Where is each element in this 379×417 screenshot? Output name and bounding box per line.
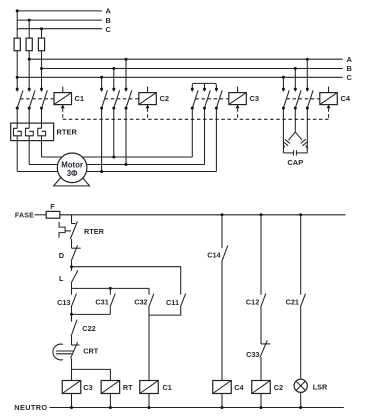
svg-text:C: C	[347, 73, 353, 82]
svg-text:FASE: FASE	[15, 213, 34, 220]
fuse F2	[26, 38, 32, 51]
contact C33 NC	[260, 340, 270, 380]
node bus B tap	[40, 67, 43, 70]
svg-text:B: B	[347, 64, 353, 73]
svg-text:CAP: CAP	[287, 158, 303, 167]
wire line A top	[17, 10, 102, 12]
svg-text:D: D	[59, 251, 64, 260]
node C	[40, 27, 43, 30]
svg-text:C31: C31	[95, 298, 108, 307]
contactor C1 contacts	[16, 88, 54, 110]
wire line B top	[17, 19, 102, 21]
wire phase C drop	[41, 29, 43, 38]
node C2-2 junction	[112, 156, 115, 159]
node B	[28, 19, 31, 22]
node neutro RT	[109, 406, 112, 409]
svg-text:C1: C1	[163, 383, 172, 392]
svg-text:F: F	[50, 202, 55, 211]
svg-text:L: L	[59, 274, 64, 283]
svg-text:C3: C3	[83, 383, 92, 392]
wire C2 bottom 2	[113, 108, 115, 157]
capacitor bank CAP wires	[282, 108, 284, 153]
wire C3 middle stub	[204, 83, 206, 89]
wire motor bus bottom	[17, 171, 216, 173]
contact C31 NO	[72, 288, 116, 314]
wire motor lead 1	[16, 136, 18, 172]
svg-text:RT: RT	[123, 383, 133, 392]
lamp LSR	[294, 379, 307, 407]
wire fase lead	[35, 214, 47, 216]
svg-text:CRT: CRT	[83, 347, 99, 356]
wire C2 bottom 3	[125, 108, 127, 164]
contact CRT timed NC	[53, 342, 80, 380]
svg-text:C33: C33	[246, 350, 259, 359]
svg-text:C14: C14	[207, 250, 221, 259]
svg-text:A: A	[106, 7, 112, 16]
node bus A tap	[28, 58, 31, 61]
svg-text:C21: C21	[286, 298, 299, 307]
node rail C14	[221, 213, 224, 216]
node neutro LSR	[299, 406, 302, 409]
coil C4	[320, 87, 338, 120]
contactor C3 contacts	[191, 88, 229, 110]
wire fuse3 out	[41, 51, 43, 89]
node C2-1 junction	[100, 170, 103, 173]
contact C13 NO	[71, 288, 76, 314]
svg-text:C3: C3	[250, 94, 260, 103]
node A	[16, 9, 19, 12]
svg-text:C1: C1	[75, 94, 85, 103]
coil C1	[140, 381, 159, 408]
contact C12 NO	[261, 215, 266, 344]
svg-text:C4: C4	[234, 383, 244, 392]
node rail C12	[260, 213, 263, 216]
coil C4	[213, 381, 232, 408]
svg-text:C2: C2	[274, 383, 283, 392]
contactor C2 feeders	[100, 58, 127, 89]
contact C21 NO	[300, 215, 305, 379]
node neutro C2	[260, 406, 263, 409]
coil C2	[252, 381, 271, 408]
bus C	[17, 76, 343, 78]
node neutro C4	[221, 406, 224, 409]
svg-text:LSR: LSR	[313, 383, 328, 392]
node C31 return	[70, 313, 73, 316]
wire fuse2 out	[28, 51, 30, 89]
svg-text:C12: C12	[246, 298, 259, 307]
wire motor lead 2	[28, 136, 30, 165]
wire fase rail	[60, 214, 346, 216]
svg-text:A: A	[347, 55, 353, 64]
interlock dashed line	[63, 118, 329, 120]
node C31 tap	[109, 287, 112, 290]
wire phase B drop	[28, 20, 30, 38]
contactor C2 contacts	[100, 88, 139, 110]
coil C1	[54, 87, 72, 120]
contact RTER NC	[59, 222, 77, 240]
wire C3 bottom 3	[215, 108, 217, 171]
motor M1 pedestal	[54, 176, 90, 186]
node rail C21	[299, 213, 302, 216]
svg-text:3Φ: 3Φ	[67, 169, 78, 178]
svg-text:C: C	[106, 25, 112, 34]
wire branch to C11	[72, 267, 181, 295]
node bus C tap	[16, 76, 19, 79]
contact L NO	[71, 267, 78, 289]
wire C3 bottom 2	[204, 108, 206, 164]
contactor C4 feeders	[282, 58, 309, 89]
fuse F	[46, 211, 60, 218]
wire main drop	[71, 215, 73, 224]
wire L bottom branch	[72, 288, 150, 294]
coil RT	[101, 381, 120, 408]
contactor C4 contacts	[282, 88, 320, 110]
bus B	[42, 68, 343, 70]
node C2-3 junction	[125, 163, 128, 166]
contactor C3 bridge	[192, 83, 216, 89]
svg-text:C13: C13	[57, 298, 70, 307]
node neutro C1	[148, 406, 151, 409]
contact C32 NO	[149, 294, 154, 381]
wire motor lead 3	[41, 136, 43, 157]
contact C11 NO	[149, 294, 186, 316]
svg-text:NEUTRO: NEUTRO	[14, 403, 47, 412]
wire C2 bottom 1	[101, 108, 103, 171]
motor M1	[57, 153, 87, 183]
wire RTER to D	[71, 239, 73, 248]
node after D	[70, 265, 73, 268]
capacitor bank CAP delta	[283, 132, 307, 156]
svg-text:C2: C2	[160, 94, 170, 103]
wire line C top	[17, 28, 102, 30]
bus A	[29, 58, 343, 60]
svg-text:RTER: RTER	[57, 128, 78, 137]
svg-text:C32: C32	[134, 298, 147, 307]
contact D NC	[71, 245, 81, 266]
contact C22 NO	[71, 314, 77, 345]
node neutro C3	[70, 406, 73, 409]
coil C2	[139, 87, 157, 120]
svg-text:C4: C4	[341, 94, 351, 103]
wire C3 bottom 1	[191, 108, 193, 157]
svg-text:B: B	[106, 16, 112, 25]
wire motor bus mid	[29, 164, 204, 166]
fuse F3	[38, 38, 44, 51]
wire motor bus top	[42, 156, 193, 158]
svg-text:C22: C22	[82, 324, 95, 333]
wire RT branch	[72, 369, 111, 380]
wire fuse1 out	[16, 51, 18, 89]
svg-text:C11: C11	[166, 298, 179, 307]
coil C3	[62, 381, 81, 408]
fuse F1	[14, 38, 20, 51]
wire neutro rail	[50, 407, 344, 409]
wire phase A drop	[16, 11, 18, 38]
contact C14 NO	[222, 215, 228, 381]
coil C3	[229, 87, 247, 120]
overload relay RTER	[11, 108, 54, 141]
svg-text:RTER: RTER	[84, 227, 105, 236]
